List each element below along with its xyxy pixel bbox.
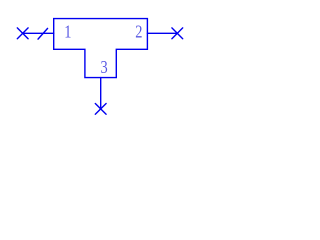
wire port 3 [100, 78, 102, 109]
open-end cross port 2 [172, 28, 183, 39]
svg-text:3: 3 [101, 56, 108, 77]
wire port 1 [23, 32, 54, 34]
wire port 2 [147, 32, 177, 34]
open-end cross port 1 [17, 28, 28, 39]
svg-text:2: 2 [135, 21, 142, 42]
slash mark on port-1 wire [38, 28, 48, 39]
microstrip tee body outline [54, 19, 148, 78]
open-end cross port 3 [95, 104, 106, 115]
svg-text:1: 1 [64, 21, 71, 42]
